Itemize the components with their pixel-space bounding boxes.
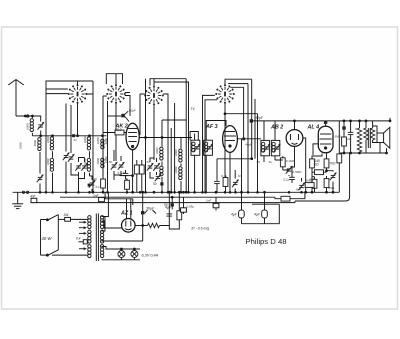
- trimmer C5: [75, 163, 82, 171]
- AF3 plate line: [237, 138, 261, 140]
- main earth bus: [13, 191, 310, 193]
- AK2 plate line: [139, 137, 192, 139]
- antenna coil L1: [30, 116, 33, 136]
- switch S1b: [46, 250, 88, 256]
- coil L9: [160, 138, 163, 166]
- fuse F1: [58, 217, 88, 221]
- svg-text:AZ 1: AZ 1: [120, 211, 133, 217]
- trimmer C1: [32, 116, 44, 136]
- svg-text:Si4: Si4: [64, 213, 69, 217]
- band switch wafer W1: [68, 84, 88, 104]
- tube AK2: [126, 123, 139, 149]
- resistor R12: [312, 177, 317, 193]
- switch S1a: [46, 215, 58, 221]
- capacitor C30: [342, 121, 345, 137]
- IF transformer T1 primary: [191, 134, 201, 161]
- resistor R19 smoothing: [135, 192, 169, 227]
- IF transformer T2 secondary: [271, 121, 280, 160]
- svg-text:AB 2: AB 2: [270, 125, 283, 131]
- rail jog right: [275, 192, 305, 198]
- svg-text:1nF: 1nF: [206, 199, 211, 203]
- bus right tail: [310, 191, 339, 193]
- AK2 top cap: [121, 114, 125, 118]
- svg-text:1000: 1000: [104, 156, 108, 163]
- wafer W4 bottom lead: [224, 104, 258, 193]
- svg-text:40: 40: [94, 177, 98, 181]
- capacitor C28: [181, 191, 187, 214]
- AL4 top cap: [324, 121, 327, 124]
- coil L6: [50, 158, 53, 192]
- svg-text:1000: 1000: [174, 166, 178, 173]
- ground: [12, 192, 23, 208]
- capacitor C17: [250, 119, 253, 122]
- wires W1 to trimmers: [66, 104, 79, 193]
- capacitor C18: [289, 163, 295, 183]
- coil L3: [87, 136, 90, 158]
- wire bundle W4: [244, 84, 255, 193]
- secondary top tap: [102, 192, 109, 216]
- AF3 cathode lead: [229, 152, 231, 192]
- coil L10: [160, 166, 163, 184]
- resistor R6: [139, 160, 144, 192]
- tube AF3: [223, 126, 238, 153]
- potentiometer P1: [232, 170, 239, 192]
- junction dot and wire: [251, 158, 253, 160]
- resistor R2: [101, 179, 106, 192]
- wire to bus: [39, 184, 41, 193]
- junction dots bus: [92, 191, 94, 193]
- section B frame: [103, 74, 130, 193]
- AK2 cathode lead: [132, 150, 134, 193]
- speaker bottom bus: [340, 152, 387, 154]
- IF transformer T1 secondary: [204, 121, 226, 161]
- transformer TR core: [96, 214, 98, 262]
- coil L5: [50, 136, 53, 158]
- svg-text:4µF: 4µF: [231, 213, 238, 217]
- svg-text:4µF: 4µF: [254, 213, 261, 217]
- svg-text:0,05µ: 0,05µ: [187, 205, 195, 209]
- resistor R13: [324, 176, 329, 192]
- wire to filter cap: [241, 139, 243, 210]
- connector circles: [22, 191, 24, 193]
- trimmer C12: [153, 163, 160, 171]
- capacitor C10: [120, 170, 134, 179]
- feed line A: [32, 135, 106, 137]
- resistor R10: [324, 154, 329, 171]
- svg-text:1000: 1000: [83, 158, 87, 165]
- section C frame: [140, 79, 189, 193]
- bus junction dots: [39, 192, 41, 194]
- line arrow right end: [389, 118, 391, 121]
- resistor R14: [305, 183, 314, 188]
- coil L4: [87, 158, 90, 176]
- potentiometer P3: [298, 178, 305, 192]
- capacitor C24: [99, 198, 105, 202]
- svg-text:2nF: 2nF: [92, 194, 100, 198]
- svg-text:T4: T4: [191, 107, 195, 111]
- resistor R20: [169, 191, 181, 229]
- svg-text:45Ω: 45Ω: [329, 186, 335, 190]
- AL4 screen lead: [313, 144, 318, 155]
- svg-text:1000: 1000: [104, 138, 108, 145]
- svg-text:1000: 1000: [26, 123, 30, 130]
- section D frame: [203, 79, 252, 192]
- svg-text:0,1µ: 0,1µ: [221, 174, 227, 178]
- lamp return: [102, 259, 141, 261]
- IF1 top bracket: [190, 132, 198, 141]
- svg-text:1kΩ: 1kΩ: [346, 137, 352, 141]
- coil L11 tall: [179, 138, 182, 167]
- tube AL4: [318, 124, 333, 153]
- wafer W3 bottom lead: [146, 79, 155, 193]
- section A frame: [46, 81, 93, 192]
- wafer W2 bottom lead: [108, 101, 117, 192]
- lamp LA2: [131, 248, 138, 260]
- potentiometer P2 volume: [283, 166, 293, 176]
- band switch wafer W2: [106, 84, 126, 104]
- transformer TR primary taps: [79, 221, 87, 224]
- svg-text:1000: 1000: [96, 137, 100, 144]
- svg-text:40µF: 40µF: [245, 143, 252, 147]
- electrolytic C23: [262, 192, 268, 223]
- IF1 leads down: [195, 160, 207, 192]
- AL4 cathode resistor R9: [310, 154, 322, 193]
- svg-text:50pF: 50pF: [129, 109, 136, 113]
- svg-text:0,1: 0,1: [96, 185, 101, 189]
- coil L2: [38, 138, 41, 174]
- svg-text:5MΩ: 5MΩ: [335, 135, 342, 139]
- tap resistor R21: [79, 240, 89, 244]
- resistor R11: [312, 170, 327, 175]
- svg-text:Philips D 48: Philips D 48: [246, 237, 287, 246]
- top bus dots: [343, 120, 345, 122]
- wire speaker return: [380, 143, 387, 154]
- svg-text:0,1MΩ: 0,1MΩ: [286, 159, 296, 163]
- lamp feed line: [102, 247, 141, 250]
- grid and plate line: [251, 120, 390, 122]
- svg-text:10,0: 10,0: [115, 128, 122, 132]
- AZ1 heater taps: [102, 221, 122, 228]
- capacitor C31: [72, 134, 75, 137]
- capacitor C25: [102, 191, 145, 241]
- cap return line: [242, 204, 280, 224]
- svg-text:50: 50: [153, 182, 157, 186]
- svg-text:0,5MΩ: 0,5MΩ: [293, 170, 303, 174]
- capacitor C26: [167, 191, 173, 216]
- wire AB2 right: [303, 138, 306, 192]
- svg-text:1000: 1000: [174, 149, 178, 156]
- band switch wafer W4: [215, 84, 235, 104]
- field coil L13: [357, 121, 361, 153]
- capacitor C20: [348, 121, 354, 153]
- resistor R18: [281, 196, 290, 201]
- svg-text:1000: 1000: [83, 136, 87, 143]
- AK2 grid cap feed: [108, 115, 122, 117]
- svg-text:37 · 0,6 m/g: 37 · 0,6 m/g: [191, 227, 209, 231]
- resistor R4 screen: [103, 130, 126, 135]
- svg-text:1000: 1000: [33, 140, 37, 147]
- svg-text:kΩ: kΩ: [315, 163, 320, 167]
- svg-text:0,1µ: 0,1µ: [284, 178, 290, 182]
- resistor R17: [342, 137, 347, 153]
- resistor R8: [275, 156, 285, 170]
- svg-text:5nF: 5nF: [296, 188, 301, 192]
- svg-text:2n: 2n: [73, 138, 78, 142]
- wafer W1 bottom lead: [77, 104, 79, 136]
- svg-text:6,3V 0,4A: 6,3V 0,4A: [142, 254, 159, 258]
- svg-text:4n: 4n: [269, 160, 273, 164]
- resistor R15: [337, 154, 342, 192]
- lamp LA1: [118, 248, 125, 260]
- speaker SP: [377, 127, 390, 148]
- svg-text:1000: 1000: [96, 158, 100, 165]
- svg-text:1000: 1000: [46, 136, 50, 143]
- HT line to AZ1: [105, 192, 133, 219]
- svg-text:1000: 1000: [155, 147, 159, 154]
- trimmer C11: [147, 163, 154, 171]
- output transformer T3: [364, 121, 377, 153]
- coil L8: [101, 158, 104, 176]
- coil L12 tall: [179, 167, 182, 193]
- svg-text:50: 50: [164, 203, 168, 207]
- svg-text:0,4: 0,4: [76, 237, 81, 241]
- capacitor C27: [171, 196, 174, 209]
- trimmer C9: [118, 162, 125, 170]
- svg-text:AL 4: AL 4: [307, 125, 320, 131]
- svg-text:1µ: 1µ: [238, 174, 242, 178]
- trimmer C4: [68, 154, 75, 162]
- trimmer C2: [37, 174, 44, 182]
- trimmer C19 tone: [326, 170, 337, 193]
- feedback line: [338, 121, 340, 154]
- AB2 output lead: [294, 146, 296, 163]
- trimmer C3: [63, 152, 70, 160]
- resistor R3: [125, 179, 130, 192]
- trimmer C7: [88, 176, 96, 192]
- svg-text:AF 3: AF 3: [205, 124, 218, 130]
- svg-text:1000: 1000: [46, 158, 50, 165]
- osc section top link: [162, 120, 186, 138]
- vertical wires section C: [171, 103, 174, 192]
- capacitor C21: [31, 198, 37, 202]
- capacitor C14: [160, 182, 163, 192]
- capacitor C29: [213, 191, 219, 210]
- svg-text:50: 50: [257, 160, 261, 164]
- antenna A1: [8, 80, 33, 118]
- resistor R7: [223, 174, 228, 192]
- svg-text:50pF: 50pF: [256, 116, 264, 120]
- trimmer C8: [111, 162, 118, 170]
- svg-text:70Ω: 70Ω: [330, 162, 337, 166]
- IF transformer T2 primary: [261, 121, 270, 162]
- svg-text:50: 50: [109, 160, 113, 164]
- svg-text:450: 450: [309, 178, 314, 182]
- trimmer C13: [155, 173, 162, 181]
- svg-text:0,1µF: 0,1µF: [118, 171, 126, 175]
- tube AB2: [286, 120, 303, 146]
- svg-text:40 W: 40 W: [42, 236, 53, 241]
- lower rails: [60, 196, 275, 198]
- svg-text:1000: 1000: [19, 142, 23, 149]
- secondary centre taps: [102, 217, 106, 232]
- electrolytic C22: [239, 210, 245, 224]
- transformer TR primary winding: [88, 216, 91, 258]
- svg-text:2n: 2n: [146, 160, 151, 164]
- mains input: [41, 220, 47, 256]
- capacitor C16: [214, 159, 220, 193]
- resistor R5: [134, 160, 139, 192]
- band switch wafer W3: [144, 86, 164, 106]
- rail wrap to output: [265, 153, 350, 203]
- switch link: [57, 215, 59, 250]
- trimmer C6: [81, 163, 88, 171]
- coil L7: [101, 136, 104, 158]
- transformer TR secondary winding: [100, 216, 103, 258]
- tube AZ1 rectifier: [122, 219, 136, 233]
